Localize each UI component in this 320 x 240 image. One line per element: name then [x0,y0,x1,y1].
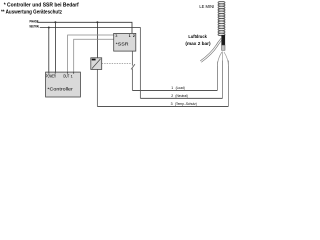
svg-text:1: 1 [171,86,173,90]
svg-text:* Controller und SSR bei Bedar: * Controller und SSR bei Bedarf [4,2,79,8]
svg-text:Luftdruck: Luftdruck [188,34,207,40]
svg-text:2: 2 [133,34,135,38]
svg-text:** Auswertung Geräteschutz: ** Auswertung Geräteschutz [1,9,62,15]
svg-text:LE MINI: LE MINI [199,4,214,9]
svg-text:3: 3 [171,102,173,106]
svg-text:1: 1 [71,74,73,78]
svg-text:1: 1 [129,34,131,38]
svg-text:*Controller: *Controller [47,86,73,91]
svg-text:OUT: OUT [63,74,70,79]
svg-text:(max 2 bar): (max 2 bar) [185,41,211,47]
svg-text:PHASE: PHASE [30,20,39,24]
svg-text:POWER: POWER [46,74,56,79]
svg-text:(Neutral): (Neutral) [175,94,188,98]
svg-text:*SSR: *SSR [116,41,129,47]
svg-text:(Load): (Load) [176,86,185,90]
svg-text:(Temp.-Schutz): (Temp.-Schutz) [175,102,197,106]
svg-text:3: 3 [115,34,117,38]
svg-text:2: 2 [171,94,173,98]
svg-text:NEUTRAL: NEUTRAL [30,24,40,28]
